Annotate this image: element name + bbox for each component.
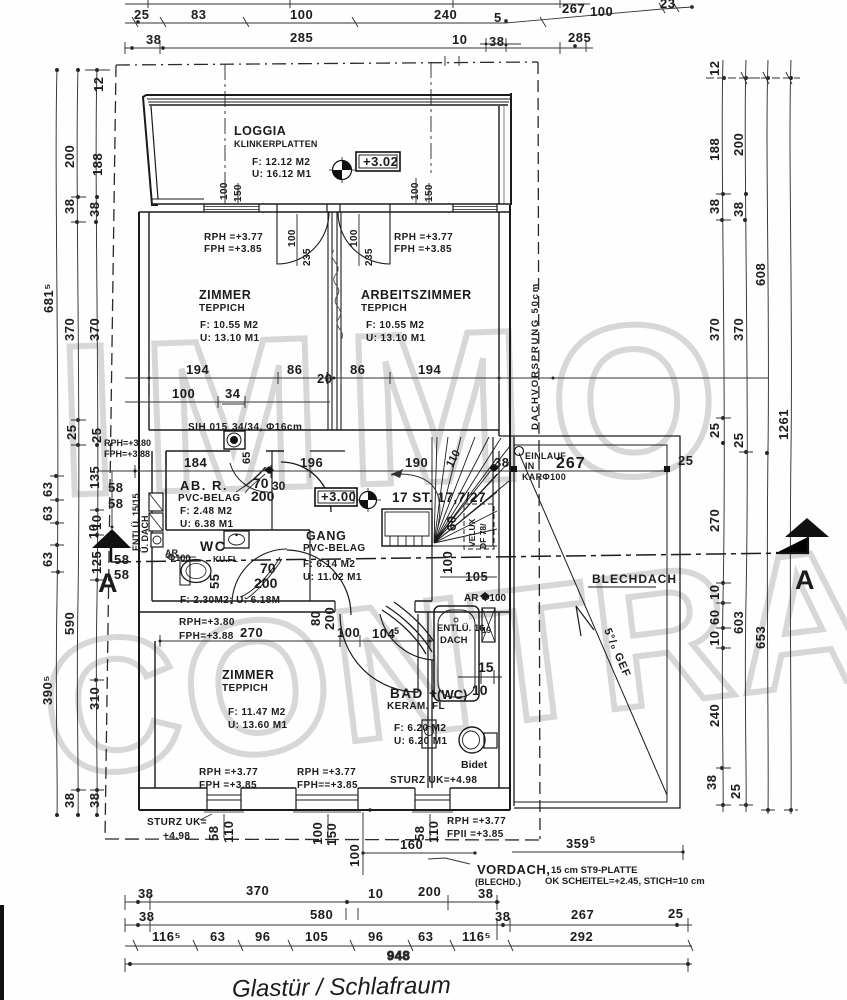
svg-text:580: 580 bbox=[310, 907, 333, 922]
section marker left bbox=[86, 471, 131, 598]
svg-text:38: 38 bbox=[489, 34, 504, 49]
svg-text:FPH =+3.85: FPH =+3.85 bbox=[204, 244, 262, 255]
svg-text:63: 63 bbox=[40, 506, 55, 521]
svg-text:150: 150 bbox=[324, 823, 339, 846]
room WC labels bbox=[166, 538, 238, 564]
svg-text:U: 13.10 M1: U: 13.10 M1 bbox=[366, 333, 425, 344]
svg-text:96: 96 bbox=[255, 929, 270, 944]
door arc and scribble GANG to BAD bbox=[380, 602, 434, 660]
loggia right wall bbox=[499, 93, 511, 205]
svg-text:100: 100 bbox=[349, 229, 360, 247]
svg-text:EINLAUF: EINLAUF bbox=[525, 451, 566, 461]
room ZIMMER lower labels bbox=[222, 668, 287, 731]
svg-text:F: 6.14 M2: F: 6.14 M2 bbox=[303, 559, 355, 570]
svg-text:STURZ UK=: STURZ UK= bbox=[147, 817, 207, 828]
svg-text:F: 10.55 M2: F: 10.55 M2 bbox=[366, 320, 424, 331]
bathtub bbox=[434, 606, 479, 701]
svg-text:U: 13.60 M1: U: 13.60 M1 bbox=[228, 720, 287, 731]
svg-text:BLECHDACH: BLECHDACH bbox=[592, 572, 677, 586]
svg-text:359: 359 bbox=[566, 836, 589, 851]
room GANG labels bbox=[303, 529, 366, 583]
svg-text:948: 948 bbox=[387, 948, 410, 963]
svg-text:86: 86 bbox=[287, 362, 302, 377]
svg-text:OK SCHEITEL=+2.45, STICH=10 cm: OK SCHEITEL=+2.45, STICH=10 cm bbox=[545, 876, 705, 887]
center dividing wall upper rooms bbox=[328, 212, 341, 430]
svg-text:38: 38 bbox=[495, 909, 510, 924]
left small texts bbox=[104, 438, 151, 582]
room ZIMMER upper labels bbox=[199, 288, 259, 344]
svg-text:RPH =+3.77: RPH =+3.77 bbox=[297, 767, 356, 778]
window dim labels 100/150 left bbox=[219, 178, 244, 203]
GANG door arc right bbox=[281, 462, 331, 512]
svg-text:38: 38 bbox=[704, 775, 719, 790]
right chain line 4 bbox=[706, 60, 800, 814]
bottom window dims rotated bbox=[206, 814, 441, 846]
svg-text:DF 78/: DF 78/ bbox=[478, 523, 488, 549]
svg-text:310: 310 bbox=[87, 687, 102, 710]
svg-text:200: 200 bbox=[731, 133, 746, 156]
svg-text:15 cm ST9-PLATTE: 15 cm ST9-PLATTE bbox=[551, 865, 637, 876]
svg-text:FPII =+3.85: FPII =+3.85 bbox=[447, 829, 504, 840]
svg-text:25: 25 bbox=[64, 425, 79, 440]
svg-text:96: 96 bbox=[368, 929, 383, 944]
svg-text:ZIMMER: ZIMMER bbox=[199, 288, 251, 302]
svg-text:38: 38 bbox=[478, 886, 493, 901]
svg-text:TEPPICH: TEPPICH bbox=[199, 303, 245, 314]
svg-text:F: 12.12 M2: F: 12.12 M2 bbox=[252, 157, 310, 168]
svg-text:KARΦ100: KARΦ100 bbox=[522, 472, 566, 482]
svg-text:FPH=+3.88: FPH=+3.88 bbox=[179, 631, 234, 642]
+3.00 box and survey marker bbox=[315, 488, 381, 512]
right outer wall bbox=[493, 205, 510, 810]
window dim labels 100/150 right bbox=[410, 178, 435, 203]
RPH FPH labels upper left room bbox=[204, 232, 263, 255]
svg-text:20: 20 bbox=[317, 371, 332, 386]
svg-text:VELUX: VELUX bbox=[467, 518, 477, 547]
svg-text:23: 23 bbox=[660, 0, 675, 11]
svg-text:240: 240 bbox=[434, 7, 457, 22]
svg-text:25: 25 bbox=[89, 428, 104, 443]
svg-text:100: 100 bbox=[219, 182, 230, 200]
chimney bbox=[224, 431, 245, 449]
axis line right loggia bbox=[430, 62, 432, 173]
svg-text:110: 110 bbox=[426, 821, 441, 843]
svg-text:285: 285 bbox=[568, 30, 591, 45]
svg-text:RPH=+3.80: RPH=+3.80 bbox=[179, 617, 235, 628]
svg-text:5: 5 bbox=[494, 10, 502, 25]
svg-text:370: 370 bbox=[87, 318, 102, 341]
svg-text:Bidet: Bidet bbox=[461, 759, 488, 771]
svg-text:U: 6.38 M1: U: 6.38 M1 bbox=[180, 519, 234, 530]
svg-text:63: 63 bbox=[418, 929, 433, 944]
loggia top window band bbox=[146, 95, 511, 105]
left outer wall bbox=[139, 212, 155, 810]
stairs landing bbox=[382, 509, 432, 546]
svg-text:+3.00: +3.00 bbox=[321, 489, 356, 504]
svg-text:STURZ UK=+4.98: STURZ UK=+4.98 bbox=[390, 775, 477, 786]
svg-text:370: 370 bbox=[731, 318, 746, 341]
svg-text:GANG: GANG bbox=[306, 529, 347, 543]
svg-text:25: 25 bbox=[731, 433, 746, 448]
svg-text:270: 270 bbox=[707, 509, 722, 532]
bottom left corner black edge bbox=[0, 905, 4, 1000]
bottom dimension chain row 3 bbox=[125, 940, 693, 951]
room AB.R. labels bbox=[178, 478, 241, 530]
svg-text:285: 285 bbox=[290, 30, 313, 45]
svg-text:116⁵: 116⁵ bbox=[462, 929, 491, 944]
stair walk line with arrow bbox=[391, 469, 440, 531]
right chain line 1 bbox=[716, 60, 731, 812]
svg-text:63: 63 bbox=[210, 929, 225, 944]
svg-text:116⁵: 116⁵ bbox=[152, 929, 181, 944]
svg-text:100: 100 bbox=[310, 822, 325, 845]
BLECHDACH label bbox=[588, 572, 677, 587]
svg-text:34: 34 bbox=[225, 386, 241, 401]
svg-text:DACHVORSPRUNG 50cm: DACHVORSPRUNG 50cm bbox=[530, 282, 541, 430]
svg-text:38: 38 bbox=[138, 886, 153, 901]
svg-text:188: 188 bbox=[707, 138, 722, 161]
svg-text:25: 25 bbox=[668, 906, 683, 921]
svg-text:38: 38 bbox=[707, 199, 722, 214]
svg-text:10: 10 bbox=[86, 524, 101, 539]
dashed roof overhang boundary bbox=[105, 62, 545, 840]
svg-text:292: 292 bbox=[570, 929, 593, 944]
svg-text:25: 25 bbox=[134, 7, 149, 22]
svg-text:RPH =+3.77: RPH =+3.77 bbox=[394, 232, 453, 243]
loggia bottom wall with openings bbox=[139, 199, 511, 212]
stairs winder fan bbox=[432, 437, 510, 546]
dim 100 160 below bbox=[347, 812, 477, 875]
section line A-A bbox=[111, 553, 790, 562]
bottom dimension chain row 1 bbox=[125, 895, 500, 920]
svg-text:58: 58 bbox=[114, 552, 129, 567]
svg-text:5: 5 bbox=[394, 626, 399, 636]
svg-text:38: 38 bbox=[146, 32, 161, 47]
svg-text:AB. R.: AB. R. bbox=[180, 478, 228, 493]
EINLAUF label bbox=[515, 447, 567, 483]
svg-text:235: 235 bbox=[364, 248, 375, 266]
svg-text:160: 160 bbox=[400, 837, 423, 852]
svg-text:PVC-BELAG: PVC-BELAG bbox=[303, 543, 366, 554]
watermark IMMO bbox=[31, 276, 847, 819]
svg-text:U: 6.20 M1: U: 6.20 M1 bbox=[394, 736, 448, 747]
svg-text:267: 267 bbox=[571, 907, 594, 922]
svg-text:30: 30 bbox=[272, 479, 286, 493]
door dim labels 100/235 left bbox=[287, 214, 313, 266]
svg-text:200: 200 bbox=[322, 607, 337, 630]
svg-text:58: 58 bbox=[206, 826, 221, 841]
svg-text:38: 38 bbox=[62, 793, 77, 808]
top dimension chain row B bbox=[125, 2, 693, 27]
svg-text:10: 10 bbox=[707, 631, 722, 646]
svg-text:150: 150 bbox=[233, 184, 244, 202]
svg-text:653: 653 bbox=[753, 626, 768, 649]
svg-text:TEPPICH: TEPPICH bbox=[222, 683, 268, 694]
svg-text:150: 150 bbox=[424, 184, 435, 202]
svg-text:240: 240 bbox=[707, 704, 722, 727]
section marker right bbox=[776, 518, 829, 595]
svg-text:WC: WC bbox=[200, 538, 226, 554]
svg-text:105: 105 bbox=[465, 569, 488, 584]
svg-text:+3.02: +3.02 bbox=[363, 154, 398, 169]
svg-text:U: 11.02 M1: U: 11.02 M1 bbox=[303, 572, 362, 583]
dim line 184 196 190 38 267 25 bbox=[98, 453, 693, 478]
svg-text:A: A bbox=[795, 565, 815, 595]
svg-text:55: 55 bbox=[207, 574, 222, 589]
svg-text:Glastür / Schlafraum: Glastür / Schlafraum bbox=[232, 972, 451, 1000]
svg-text:100: 100 bbox=[287, 229, 298, 247]
svg-text:RPH =+3.77: RPH =+3.77 bbox=[447, 816, 506, 827]
svg-text:ENTLÜ. 16: ENTLÜ. 16 bbox=[437, 623, 485, 634]
svg-text:TEPPICH: TEPPICH bbox=[361, 303, 407, 314]
stair dim labels bbox=[440, 448, 507, 604]
left chain line 1 bbox=[50, 68, 64, 817]
RPH FPH bottom right bbox=[447, 816, 506, 840]
dim 138 top right bbox=[480, 38, 521, 52]
WC toilet bbox=[180, 557, 211, 585]
svg-text:F: 10.55 M2: F: 10.55 M2 bbox=[200, 320, 258, 331]
svg-text:100: 100 bbox=[410, 182, 421, 200]
svg-text:135: 135 bbox=[87, 466, 102, 489]
svg-text:590: 590 bbox=[62, 612, 77, 635]
door dim labels 100/235 right bbox=[349, 214, 375, 266]
svg-text:63: 63 bbox=[40, 552, 55, 567]
top dimension chain row C bbox=[125, 40, 593, 66]
svg-text:65: 65 bbox=[241, 452, 253, 464]
svg-text:194: 194 bbox=[418, 362, 441, 377]
svg-text:60: 60 bbox=[444, 516, 459, 531]
door labels 80/200 GANG-ZIMMER bbox=[308, 607, 337, 630]
svg-text:100: 100 bbox=[590, 4, 613, 19]
RPH FPH labels WC zone bbox=[179, 617, 235, 642]
svg-text:RPH =+3.77: RPH =+3.77 bbox=[204, 232, 263, 243]
bottom dimension chain row 4 bbox=[125, 948, 692, 972]
svg-text:270: 270 bbox=[240, 625, 263, 640]
survey marker +3.02 bbox=[329, 152, 400, 183]
svg-text:F: 6.20 M2: F: 6.20 M2 bbox=[394, 723, 446, 734]
svg-text:+4.98: +4.98 bbox=[163, 831, 190, 842]
RPH FPH lower left bbox=[199, 767, 258, 791]
svg-text:38: 38 bbox=[731, 202, 746, 217]
right chain line 3 bbox=[761, 60, 775, 814]
top row C labels 38 285 10 285 38 bbox=[146, 30, 591, 49]
svg-text:38: 38 bbox=[87, 793, 102, 808]
svg-text:10: 10 bbox=[452, 32, 467, 47]
loggia left wall bbox=[143, 95, 158, 205]
right chain labels (rotated) bbox=[704, 61, 791, 799]
left chain line 2 bbox=[71, 68, 86, 817]
svg-text:38: 38 bbox=[139, 909, 154, 924]
svg-text:VORDACH,: VORDACH, bbox=[477, 862, 550, 877]
svg-text:12: 12 bbox=[707, 61, 722, 76]
AB.R. door arc + label 70/200 bbox=[230, 452, 286, 504]
svg-text:370: 370 bbox=[707, 318, 722, 341]
left chain line 3 bbox=[85, 68, 110, 817]
shaft next to tub bbox=[482, 608, 495, 642]
svg-text:100: 100 bbox=[347, 844, 362, 867]
svg-text:100: 100 bbox=[172, 386, 195, 401]
door arc GANG to lower ZIMMER bbox=[340, 614, 418, 692]
svg-text:10: 10 bbox=[368, 886, 383, 901]
svg-text:370: 370 bbox=[62, 318, 77, 341]
svg-text:100: 100 bbox=[290, 7, 313, 22]
BAD left wall bbox=[428, 612, 432, 788]
svg-text:(BLECHD.): (BLECHD.) bbox=[475, 877, 521, 887]
right chain line 2 bbox=[739, 60, 760, 812]
top dimension chain row A bbox=[125, 0, 590, 8]
svg-text:SIH 015: SIH 015 bbox=[188, 422, 228, 433]
svg-text:100: 100 bbox=[440, 551, 455, 574]
room BAD labels bbox=[387, 686, 467, 747]
svg-text:105: 105 bbox=[305, 929, 328, 944]
svg-text:1261: 1261 bbox=[776, 409, 791, 440]
svg-text:200: 200 bbox=[418, 884, 441, 899]
svg-text:FPH =+3.85: FPH =+3.85 bbox=[394, 244, 452, 255]
svg-text:15: 15 bbox=[478, 659, 494, 675]
svg-text:681⁵: 681⁵ bbox=[41, 283, 56, 313]
svg-text:AR Φ100: AR Φ100 bbox=[464, 593, 507, 604]
svg-text:(WC): (WC) bbox=[437, 687, 467, 702]
svg-text:BAD +: BAD + bbox=[390, 686, 438, 701]
svg-text:KLINKERPLATTEN: KLINKERPLATTEN bbox=[234, 139, 318, 149]
svg-text:188: 188 bbox=[90, 153, 105, 176]
dim 15 10 in BAD bbox=[458, 659, 502, 698]
dim 359.5 bbox=[512, 835, 685, 860]
wall band below middle zone bbox=[139, 546, 510, 612]
svg-text:U: 16.12 M1: U: 16.12 M1 bbox=[252, 169, 311, 180]
svg-text:FPH==+3.85: FPH==+3.85 bbox=[297, 780, 358, 791]
svg-text:235: 235 bbox=[302, 248, 313, 266]
svg-text:38: 38 bbox=[87, 202, 102, 217]
bidet bbox=[459, 727, 497, 753]
top row B labels 25 83 100 240 100 5 267 23 bbox=[134, 0, 675, 25]
svg-text:DACH: DACH bbox=[440, 635, 468, 646]
interior dim line 100 34 bbox=[125, 386, 330, 408]
svg-text:200: 200 bbox=[62, 145, 77, 168]
wall shafts left middle bbox=[149, 493, 163, 547]
svg-text:184: 184 bbox=[184, 455, 207, 470]
svg-text:38: 38 bbox=[62, 199, 77, 214]
VELUX skylight dashed bbox=[464, 504, 494, 549]
roof diagonal drain line bbox=[519, 453, 667, 795]
WC room dims bbox=[207, 560, 278, 591]
svg-text:603: 603 bbox=[731, 611, 746, 634]
VORDACH label bbox=[428, 858, 705, 887]
RPH FPH labels upper right room bbox=[394, 232, 453, 255]
svg-text:KU.FL: KU.FL bbox=[213, 554, 238, 564]
svg-text:LOGGIA: LOGGIA bbox=[234, 124, 286, 138]
svg-text:FPH =+3.85: FPH =+3.85 bbox=[199, 780, 257, 791]
RPH FPH lower mid bbox=[297, 767, 358, 791]
svg-text:83: 83 bbox=[191, 7, 206, 22]
bottom wall with windows bbox=[139, 788, 510, 812]
svg-text:ARBEITSZIMMER: ARBEITSZIMMER bbox=[361, 288, 472, 302]
svg-text:10: 10 bbox=[472, 682, 488, 698]
svg-text:10: 10 bbox=[707, 585, 722, 600]
svg-text:190: 190 bbox=[405, 455, 428, 470]
dim line 270 100 104 bbox=[159, 625, 433, 647]
svg-text:ZIMMER: ZIMMER bbox=[222, 668, 274, 682]
WC door arc bbox=[232, 549, 351, 615]
room LOGGIA labels bbox=[234, 124, 318, 180]
svg-text:110: 110 bbox=[221, 821, 236, 843]
svg-text:60: 60 bbox=[707, 610, 722, 625]
svg-text:100: 100 bbox=[337, 625, 360, 640]
roof area outline bbox=[499, 436, 680, 808]
svg-text:F: 11.47 M2: F: 11.47 M2 bbox=[228, 707, 286, 718]
svg-text:267: 267 bbox=[562, 1, 585, 16]
room ARBEITSZIMMER labels bbox=[361, 288, 472, 344]
svg-text:RPH =+3.77: RPH =+3.77 bbox=[199, 767, 258, 778]
washbasin BAD bbox=[422, 720, 436, 748]
axis line left loggia bbox=[224, 64, 226, 204]
svg-text:KERAM. FL: KERAM. FL bbox=[387, 701, 445, 712]
bottom dimension chain row 2 bbox=[125, 918, 692, 940]
svg-text:A: A bbox=[98, 568, 118, 598]
wall break squiggle bbox=[332, 250, 343, 340]
wall band below upper rooms bbox=[149, 430, 499, 601]
svg-text:25: 25 bbox=[728, 784, 743, 799]
svg-text:370: 370 bbox=[246, 883, 269, 898]
interior dim line 194 86 20 86 194 bbox=[125, 362, 768, 386]
svg-text:U: 13.10 M1: U: 13.10 M1 bbox=[200, 333, 259, 344]
left chain labels (rotated) bbox=[40, 77, 106, 808]
loggia double door arcs bbox=[277, 212, 390, 264]
svg-text:F: 2.48 M2: F: 2.48 M2 bbox=[180, 506, 232, 517]
svg-text:390⁵: 390⁵ bbox=[40, 675, 55, 705]
WC washbasin bbox=[224, 531, 249, 548]
svg-text:12: 12 bbox=[91, 77, 106, 92]
svg-text:86: 86 bbox=[350, 362, 365, 377]
svg-text:25: 25 bbox=[707, 423, 722, 438]
ENTLU DACH text on tub bbox=[437, 623, 491, 646]
svg-text:63: 63 bbox=[40, 482, 55, 497]
svg-text:PVC-BELAG: PVC-BELAG bbox=[178, 493, 241, 504]
STURZ UK left bbox=[147, 814, 212, 842]
svg-text:5: 5 bbox=[590, 835, 595, 845]
svg-text:80: 80 bbox=[308, 611, 323, 626]
svg-text:194: 194 bbox=[186, 362, 209, 377]
svg-text:608: 608 bbox=[753, 263, 768, 286]
